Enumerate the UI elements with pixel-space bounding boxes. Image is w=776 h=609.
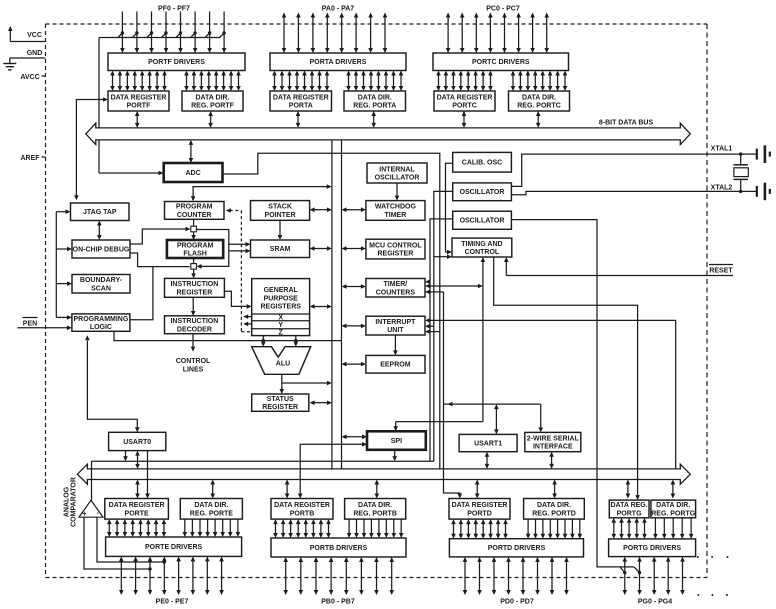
wire XTAL2 to oscillator bbox=[511, 191, 740, 194]
wires PORTA drivers-to-data-register register/driver array bbox=[272, 71, 329, 92]
svg-text:PORTD: PORTD bbox=[467, 510, 492, 517]
svg-text:OSCILLATOR: OSCILLATOR bbox=[375, 174, 420, 181]
svg-text:ANALOG: ANALOG bbox=[64, 486, 71, 517]
block INTERNAL OSCILLATOR bbox=[367, 163, 427, 183]
wire ADC to right vertical (analog routing) bbox=[223, 153, 440, 469]
svg-text:RESET: RESET bbox=[709, 268, 733, 275]
svg-text:PURPOSE: PURPOSE bbox=[264, 295, 299, 302]
svg-text:DATA DIR.: DATA DIR. bbox=[522, 94, 556, 101]
wire stack pointer to data bus bbox=[310, 207, 332, 212]
wire data bus to timer/counters bbox=[342, 284, 366, 289]
wire USART0 to PORTE data register bbox=[145, 451, 150, 499]
block ADC bbox=[164, 163, 223, 182]
svg-text:TIMER: TIMER bbox=[385, 212, 407, 219]
block STATUS REGISTER bbox=[252, 394, 309, 411]
svg-text:REG. PORTG: REG. PORTG bbox=[651, 511, 696, 518]
wire data bus to watchdog timer bbox=[342, 207, 366, 212]
svg-text:TIMER/: TIMER/ bbox=[384, 281, 408, 288]
svg-text:PORTD DRIVERS: PORTD DRIVERS bbox=[488, 545, 546, 552]
block DATA REGISTER PORTE bbox=[105, 499, 169, 520]
block PORTG DRIVERS bbox=[609, 539, 696, 557]
wire programming logic to USART0 bbox=[85, 335, 140, 432]
svg-text:X: X bbox=[278, 314, 283, 321]
AVCC pin bbox=[20, 74, 45, 81]
wire timer oscillator TOSC to PORTG pins bbox=[511, 220, 641, 575]
block DATA DIR. REG. PORTC bbox=[509, 91, 570, 111]
block DATA DIR. REG. PORTD bbox=[524, 499, 585, 520]
svg-text:COUNTER: COUNTER bbox=[177, 212, 212, 219]
wire status register to data bus bbox=[310, 400, 332, 405]
wire data bus to PORTB data direction register bbox=[375, 480, 380, 499]
wire USART0 to data bus bbox=[135, 451, 140, 469]
wire data bus to PORTB data register bbox=[285, 480, 290, 499]
port E pins PE0-PE7 bbox=[119, 556, 224, 595]
block TIMER/ COUNTERS bbox=[366, 279, 425, 298]
block BOUNDARY-SCAN bbox=[72, 275, 130, 294]
svg-text:PORTB DRIVERS: PORTB DRIVERS bbox=[310, 545, 368, 552]
svg-text:PB0 - PB7: PB0 - PB7 bbox=[321, 599, 355, 606]
svg-text:Z: Z bbox=[279, 329, 284, 336]
wires PORTD data-register-to-drivers register/driver array bbox=[451, 519, 508, 539]
svg-text:UNIT: UNIT bbox=[387, 327, 404, 334]
svg-text:GND: GND bbox=[27, 50, 43, 57]
wire oscillator clock to timing and control / interrupt bbox=[425, 191, 453, 461]
block PORTA DRIVERS bbox=[270, 53, 406, 71]
port D pins PD0-PD7 bbox=[463, 557, 569, 595]
svg-text:Y: Y bbox=[278, 322, 283, 329]
block DATA REGISTER PORTB bbox=[271, 499, 333, 520]
wire data bus to PORTG data direction register bbox=[671, 480, 676, 499]
svg-text:PORTC: PORTC bbox=[452, 103, 477, 110]
svg-text:GENERAL: GENERAL bbox=[264, 287, 299, 294]
wire JTAG TAP to ON-CHIP DEBUG bbox=[97, 221, 102, 241]
block OSCILLATOR U1 bbox=[453, 183, 512, 201]
block PORTE DRIVERS bbox=[106, 537, 242, 556]
wire calibrated oscillator to timing and control bbox=[446, 163, 453, 254]
label PB0 - PB7 bbox=[321, 599, 355, 606]
svg-text:XTAL2: XTAL2 bbox=[711, 184, 733, 191]
svg-text:DATA REGISTER: DATA REGISTER bbox=[452, 502, 508, 509]
wire USART0 to rail bbox=[123, 451, 128, 462]
block DATA DIR. REG. PORTE bbox=[180, 499, 242, 520]
wire DATA REGISTER PORTF to JTAG TAP bbox=[74, 97, 108, 200]
svg-text:DATA DIR.: DATA DIR. bbox=[358, 502, 392, 509]
wire timing and control to PORTG data register bbox=[494, 257, 640, 500]
wire PORTF data register to data bus bbox=[135, 111, 140, 128]
wires PORTB data-register-to-drivers register/driver array bbox=[273, 519, 331, 538]
label control lines bbox=[176, 358, 211, 373]
port B pins PB0-PB7 bbox=[283, 557, 394, 595]
svg-text:FLASH: FLASH bbox=[183, 251, 206, 258]
svg-text:VCC: VCC bbox=[27, 32, 42, 39]
wire data bus to MCU control register bbox=[342, 246, 366, 251]
svg-text:2-WIRE SERIAL: 2-WIRE SERIAL bbox=[527, 435, 580, 442]
8-bit data bus (bottom) bbox=[77, 464, 690, 484]
wire rail to USART1 bbox=[494, 404, 499, 434]
wire internal data bus horizontal to ALU inputs bbox=[114, 332, 342, 343]
VCC pin bbox=[8, 26, 46, 42]
block PROGRAM COUNTER bbox=[165, 202, 225, 220]
wire data bus to PORTE data register bbox=[135, 480, 140, 499]
label PF0 - PF7 bbox=[158, 6, 190, 13]
wire analog comparator - input to PE3 pin bbox=[97, 517, 166, 564]
wire general purpose registers to ALU (right input) bbox=[294, 336, 299, 347]
wire instruction register to instruction decoder bbox=[191, 297, 196, 316]
svg-text:REG. PORTE: REG. PORTE bbox=[190, 510, 234, 517]
block OSCILLATOR U2 bbox=[453, 211, 512, 229]
svg-text:ALU: ALU bbox=[276, 360, 290, 367]
block STACK POINTER bbox=[251, 201, 310, 221]
svg-text:AVCC: AVCC bbox=[20, 74, 39, 81]
wire ALU output to data bus and status register bbox=[280, 374, 332, 394]
wire PORTC data direction register to data bus bbox=[536, 111, 541, 128]
wires PORTC drivers-to-data-register register/driver array bbox=[436, 71, 493, 92]
block DATA DIR. REG. PORTB bbox=[345, 499, 406, 520]
svg-text:DATA REG.: DATA REG. bbox=[610, 502, 647, 509]
wire PORTF data direction register to data bus bbox=[208, 111, 213, 128]
svg-text:JTAG TAP: JTAG TAP bbox=[83, 209, 117, 216]
wire SPI to rail bbox=[392, 450, 397, 461]
wires PORTE data-register-to-drivers register/driver array bbox=[107, 519, 166, 537]
block SRAM bbox=[251, 240, 310, 258]
block DATA REGISTER PORTC bbox=[434, 91, 495, 111]
svg-text:SRAM: SRAM bbox=[270, 246, 291, 253]
wires PORTE dir-register-to-drivers register/driver array bbox=[183, 519, 241, 537]
svg-text:DATA DIR.: DATA DIR. bbox=[194, 502, 228, 509]
block USART0 bbox=[109, 432, 166, 450]
block DATA DIR. REG. PORTF bbox=[182, 91, 243, 111]
block INSTRUCTION REGISTER bbox=[165, 278, 225, 297]
label PD0 - PD7 bbox=[500, 599, 534, 606]
svg-text:TIMING AND: TIMING AND bbox=[461, 241, 502, 248]
svg-text:STACK: STACK bbox=[268, 204, 292, 211]
wire stack pointer to SRAM bbox=[278, 220, 283, 240]
wire timer/counters to timing control vertical bbox=[425, 284, 483, 289]
port G pins PG0-PG4 bbox=[623, 557, 685, 595]
svg-text:PEN: PEN bbox=[23, 321, 37, 328]
chip boundary dashed border bbox=[46, 24, 708, 578]
svg-text:DATA DIR.: DATA DIR. bbox=[656, 502, 690, 509]
svg-text:PA0 - PA7: PA0 - PA7 bbox=[322, 6, 355, 13]
svg-text:INTERFACE: INTERFACE bbox=[533, 443, 573, 450]
port C pins PC0-PC7 bbox=[446, 13, 549, 54]
svg-text:REG. PORTD: REG. PORTD bbox=[532, 510, 576, 517]
wire bus to program counter bbox=[191, 184, 332, 201]
block EEPROM bbox=[366, 355, 425, 373]
PEN pin with overline bbox=[17, 318, 72, 331]
wire instruction decoder to control lines bbox=[191, 334, 196, 352]
svg-text:PORTG DRIVERS: PORTG DRIVERS bbox=[623, 545, 681, 552]
svg-text:LINES: LINES bbox=[183, 366, 204, 373]
svg-text:PC0 - PC7: PC0 - PC7 bbox=[486, 6, 520, 13]
wire data bus to PORTD data register bbox=[475, 480, 480, 499]
block DATA DIR. REG. PORTG bbox=[651, 500, 696, 518]
XTAL2 load capacitor to ground bbox=[741, 183, 770, 201]
block INTERRUPT UNIT bbox=[366, 316, 425, 335]
wire analog comparator output / serial rail bbox=[92, 461, 434, 500]
wire center data bus vertical A bbox=[331, 140, 333, 469]
svg-text:SCAN: SCAN bbox=[91, 285, 111, 292]
svg-text:REGISTER: REGISTER bbox=[262, 404, 298, 411]
wire 2-wire serial interface to data bus bbox=[549, 452, 554, 469]
wire data bus to interrupt unit bbox=[342, 324, 366, 329]
wire timer oscillator clock to timer and SPI bbox=[425, 219, 453, 461]
wire SPI to PORTB data register bbox=[298, 442, 367, 499]
wire flash to SRAM feeds bbox=[229, 242, 251, 253]
svg-text:REGISTER: REGISTER bbox=[378, 250, 414, 257]
label PA0 - PA7 bbox=[322, 6, 355, 13]
svg-text:PF0 - PF7: PF0 - PF7 bbox=[158, 6, 190, 13]
block PROGRAMMING LOGIC bbox=[72, 314, 130, 331]
svg-text:CONTROL: CONTROL bbox=[176, 358, 211, 365]
svg-text:CONTROL: CONTROL bbox=[465, 249, 500, 256]
wire USART1 to data bus bbox=[485, 452, 490, 469]
block PORTD DRIVERS bbox=[449, 539, 583, 557]
svg-text:INTERRUPT: INTERRUPT bbox=[375, 319, 416, 326]
wires PORTG data-register-to-drivers register/driver array bbox=[612, 518, 647, 539]
wire program flash to instruction register with break square bbox=[191, 258, 197, 278]
svg-text:INSTRUCTION: INSTRUCTION bbox=[170, 318, 218, 325]
RESET wire bbox=[504, 257, 733, 276]
block SPI bbox=[367, 431, 426, 450]
svg-text:DECODER: DECODER bbox=[177, 326, 212, 333]
wire OCD to flash break square (lower) bbox=[130, 253, 190, 267]
block INSTRUCTION DECODER bbox=[165, 316, 225, 334]
svg-text:DATA REGISTER: DATA REGISTER bbox=[273, 94, 329, 101]
block MCU CONTROL REGISTER bbox=[366, 239, 425, 259]
wire USART/TWI rail bbox=[444, 402, 544, 433]
svg-text:USART0: USART0 bbox=[123, 439, 151, 446]
svg-text:XTAL1: XTAL1 bbox=[711, 146, 733, 153]
label analog comparator (rotated) bbox=[64, 477, 78, 527]
block USART1 bbox=[459, 434, 517, 451]
svg-text:REG. PORTF: REG. PORTF bbox=[191, 103, 235, 110]
svg-text:LOGIC: LOGIC bbox=[90, 324, 112, 331]
svg-text:PROGRAM: PROGRAM bbox=[177, 242, 214, 249]
svg-text:AREF: AREF bbox=[20, 155, 40, 162]
svg-text:REGISTERS: REGISTERS bbox=[260, 304, 301, 311]
svg-text:CALIB. OSC: CALIB. OSC bbox=[462, 160, 502, 167]
svg-text:DATA REGISTER: DATA REGISTER bbox=[109, 502, 165, 509]
wire interrupt unit to EEPROM bbox=[393, 335, 398, 355]
block DATA REGISTER PORTD bbox=[449, 499, 510, 520]
svg-text:PORTF: PORTF bbox=[127, 103, 151, 110]
svg-text:+: + bbox=[82, 511, 86, 518]
svg-text:PE0 - PE7: PE0 - PE7 bbox=[156, 599, 189, 606]
svg-text:PG0 - PG4: PG0 - PG4 bbox=[638, 599, 672, 606]
wires PORTF drivers-to-dir-register register/driver array bbox=[184, 71, 241, 92]
svg-text:REG. PORTC: REG. PORTC bbox=[517, 103, 561, 110]
svg-text:DATA REGISTER: DATA REGISTER bbox=[111, 94, 167, 101]
svg-text:PROGRAMMING: PROGRAMMING bbox=[73, 316, 128, 323]
PF analog mux rail to ADC (dots and switch diagonals) bbox=[99, 31, 226, 175]
wires PORTA drivers-to-dir-register register/driver array bbox=[346, 71, 403, 92]
wire data bus to PORTE data direction register bbox=[210, 480, 215, 499]
svg-text:PORTC DRIVERS: PORTC DRIVERS bbox=[472, 59, 530, 66]
svg-text:PORTE DRIVERS: PORTE DRIVERS bbox=[145, 544, 203, 551]
svg-text:POINTER: POINTER bbox=[265, 212, 296, 219]
svg-text:INSTRUCTION: INSTRUCTION bbox=[170, 281, 218, 288]
svg-text:ON-CHIP DEBUG: ON-CHIP DEBUG bbox=[73, 246, 130, 253]
svg-text:PROGRAM: PROGRAM bbox=[176, 204, 213, 211]
block CALIB. OSC bbox=[453, 152, 512, 172]
svg-text:REGISTER: REGISTER bbox=[177, 290, 213, 297]
svg-text:PORTF DRIVERS: PORTF DRIVERS bbox=[148, 59, 205, 66]
wires PORTC drivers-to-dir-register register/driver array bbox=[511, 71, 568, 92]
XTAL1 load capacitor to ground bbox=[741, 145, 770, 163]
GND pin and ground symbol bbox=[3, 50, 45, 70]
svg-text:PORTE: PORTE bbox=[125, 510, 149, 517]
svg-text:PD0 - PD7: PD0 - PD7 bbox=[500, 599, 534, 606]
block 2-WIRE SERIAL INTERFACE bbox=[525, 432, 581, 451]
dashed wire program counter to X/Y/Z pointer registers bbox=[226, 208, 252, 332]
wire data bus to PORTD data direction register bbox=[552, 480, 557, 499]
wire interrupt unit feed line down to PORTD data register bbox=[425, 290, 462, 499]
ALU bbox=[252, 347, 311, 375]
svg-text:PORTA: PORTA bbox=[289, 103, 313, 110]
svg-text:DATA DIR.: DATA DIR. bbox=[195, 94, 229, 101]
wire OCD to flash-PC break square (upper) bbox=[130, 227, 191, 244]
svg-text:DATA DIR.: DATA DIR. bbox=[537, 502, 571, 509]
label PE0 - PE7 bbox=[156, 599, 189, 606]
svg-text:PORTA DRIVERS: PORTA DRIVERS bbox=[310, 59, 367, 66]
wire flash read loop right side bbox=[197, 230, 229, 269]
RESET label with overline bbox=[709, 265, 733, 275]
wires PORTF drivers-to-data-register register/driver array bbox=[110, 71, 167, 92]
svg-text:OSCILLATOR: OSCILLATOR bbox=[460, 218, 505, 225]
block DATA DIR. REG. PORTA bbox=[344, 91, 406, 111]
wire data bus to SPI bbox=[342, 435, 368, 440]
wire analog comparator + input to PE2 pin bbox=[84, 517, 152, 571]
block PORTB DRIVERS bbox=[271, 538, 406, 557]
label PC0 - PC7 bbox=[486, 6, 520, 13]
wire general purpose registers to ALU (left input) bbox=[261, 336, 266, 347]
block PROGRAM FLASH bbox=[167, 240, 223, 258]
wire bus to ADC bbox=[189, 140, 194, 163]
svg-text:COUNTERS: COUNTERS bbox=[376, 289, 416, 296]
AREF pin bbox=[20, 155, 45, 162]
svg-text:OSCILLATOR: OSCILLATOR bbox=[460, 189, 505, 196]
block DATA REGISTER PORTA bbox=[270, 91, 332, 111]
label PG0 - PG4 bbox=[638, 599, 672, 606]
wire instruction register to general purpose registers bbox=[224, 291, 251, 309]
wire XTAL1 to oscillator bbox=[511, 154, 740, 186]
wire general purpose registers to data bus bbox=[310, 304, 332, 309]
block GENERAL PURPOSE REGISTERS with X Y Z registers bbox=[252, 279, 310, 337]
svg-text:PORTB: PORTB bbox=[290, 510, 315, 517]
svg-text:EEPROM: EEPROM bbox=[380, 362, 411, 369]
block TIMING AND CONTROL bbox=[452, 238, 512, 257]
block JTAG TAP bbox=[71, 203, 130, 221]
svg-text:REG. PORTB: REG. PORTB bbox=[353, 510, 397, 517]
svg-text:STATUS: STATUS bbox=[267, 396, 294, 403]
wire data bus to EEPROM bbox=[342, 362, 366, 367]
analog comparator bbox=[79, 500, 103, 518]
wires PORTG dir-register-to-drivers register/driver array bbox=[653, 518, 693, 539]
wire internal oscillator to watchdog timer bbox=[395, 183, 400, 201]
wires PORTD dir-register-to-drivers register/driver array bbox=[526, 519, 582, 539]
wires PORTB dir-register-to-drivers register/driver array bbox=[347, 519, 404, 538]
stray dots right of PORTG drivers (cropped figure remnants) bbox=[697, 556, 729, 596]
crystal between XTAL1 and XTAL2 bbox=[734, 152, 749, 193]
block PORTC DRIVERS bbox=[433, 53, 569, 71]
svg-text:DATA REGISTER: DATA REGISTER bbox=[437, 94, 493, 101]
svg-text:INTERNAL: INTERNAL bbox=[379, 166, 415, 173]
port F pins PF0-PF7 (lines into PORTF drivers) bbox=[120, 12, 226, 54]
svg-text:PORTG: PORTG bbox=[617, 511, 642, 518]
svg-text:DATA REGISTER: DATA REGISTER bbox=[274, 502, 330, 509]
wire PORTC data register to data bus bbox=[462, 111, 467, 128]
block PORTF DRIVERS bbox=[108, 53, 245, 71]
XTAL2 label bbox=[711, 184, 733, 191]
wire analog line to interrupt unit bbox=[425, 329, 440, 334]
svg-text:SPI: SPI bbox=[391, 438, 402, 445]
wire PORTA data direction register to data bus bbox=[371, 111, 376, 128]
svg-text:8-BIT DATA BUS: 8-BIT DATA BUS bbox=[599, 120, 654, 127]
svg-text:DATA DIR.: DATA DIR. bbox=[358, 94, 392, 101]
svg-text:REG. PORTA: REG. PORTA bbox=[353, 103, 396, 110]
wire JTAG chain vertical with arrows into JTAG/OCD/boundary-scan/programming logic bbox=[56, 209, 72, 319]
wire timing and control down to USART/TWI rail bbox=[481, 257, 486, 422]
port A pins PA0-PA7 bbox=[282, 13, 388, 54]
8-bit data bus (top) bbox=[86, 120, 691, 145]
svg-text:WATCHDOG: WATCHDOG bbox=[375, 204, 417, 211]
svg-text:MCU CONTROL: MCU CONTROL bbox=[369, 242, 422, 249]
wire center data bus vertical B bbox=[341, 140, 343, 469]
wire interrupt unit to right vertical (to bottom bus) bbox=[425, 318, 676, 469]
block ON-CHIP DEBUG bbox=[72, 240, 130, 258]
svg-text:BOUNDARY-: BOUNDARY- bbox=[80, 277, 123, 284]
block WATCHDOG TIMER bbox=[366, 201, 425, 221]
XTAL1 label bbox=[711, 146, 733, 153]
block DATA REGISTER PORTF bbox=[108, 91, 169, 111]
block DATA REG. PORTG bbox=[609, 500, 649, 518]
wire PORTA data register to data bus bbox=[296, 111, 301, 128]
wire programming logic to flash loop bbox=[130, 267, 153, 320]
wire timing and control clock to SPI bbox=[393, 422, 483, 432]
wire program counter to program flash with break square bbox=[191, 219, 197, 240]
svg-text:USART1: USART1 bbox=[474, 441, 502, 448]
wire SRAM to data bus bbox=[310, 246, 332, 251]
svg-text:ADC: ADC bbox=[186, 170, 201, 177]
wire data bus to PORTG data register bbox=[626, 480, 631, 499]
svg-text:COMPARATOR: COMPARATOR bbox=[71, 477, 78, 527]
